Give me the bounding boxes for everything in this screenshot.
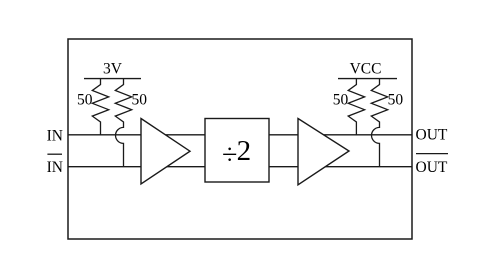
svg-text:50: 50 [333, 92, 349, 109]
svg-text:50: 50 [132, 92, 148, 109]
svg-text:2: 2 [237, 135, 252, 167]
svg-text:50: 50 [388, 92, 404, 109]
svg-text:IN: IN [47, 159, 63, 176]
svg-text:VCC: VCC [350, 61, 382, 78]
svg-text:OUT: OUT [416, 127, 448, 144]
svg-text:IN: IN [47, 127, 63, 144]
svg-text:OUT: OUT [416, 159, 448, 176]
svg-text:÷: ÷ [222, 140, 237, 171]
svg-text:50: 50 [77, 92, 93, 109]
svg-text:3V: 3V [103, 61, 123, 78]
